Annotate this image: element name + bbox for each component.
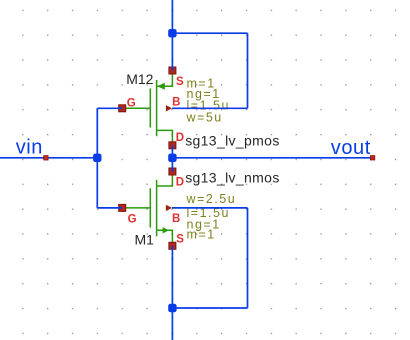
- svg-text:B: B: [172, 213, 180, 225]
- wire vss vertical: [171, 246, 173, 340]
- nmos M1 pin S: [169, 242, 176, 249]
- wire vin: [0, 157, 97, 159]
- nmos M1 pin G: [119, 204, 126, 211]
- wire nmos bulk: [172, 207, 248, 209]
- vin label marker: [44, 156, 48, 160]
- wire right rail lower: [247, 208, 249, 308]
- wire drain link: [171, 145, 173, 172]
- svg-text:S: S: [176, 76, 184, 88]
- svg-text:w=5u: w=5u: [186, 110, 223, 124]
- svg-text:sg13_lv_nmos: sg13_lv_nmos: [185, 169, 279, 185]
- junction top: [168, 29, 176, 37]
- nmos M1 drain leg: [157, 172, 172, 187]
- pmos M12 drain leg: [157, 130, 172, 145]
- pmos M12 gate lead: [122, 107, 150, 109]
- wire bottom horizontal: [172, 307, 247, 309]
- svg-text:B: B: [172, 96, 180, 108]
- svg-text:vout: vout: [331, 137, 371, 159]
- pmos M12 bulk arrow: [166, 105, 172, 111]
- pmos M12 gate bar: [149, 88, 151, 127]
- svg-text:w=2.5u: w=2.5u: [186, 192, 237, 206]
- nmos M1 bulk arrow: [166, 205, 172, 211]
- svg-text:G: G: [128, 213, 137, 225]
- nmos M1 gate lead: [122, 207, 150, 209]
- svg-text:m=1: m=1: [187, 228, 216, 242]
- svg-text:G: G: [127, 97, 136, 109]
- svg-text:M1: M1: [135, 232, 155, 248]
- nmos M1 source leg: [157, 230, 172, 243]
- wire vout: [172, 157, 373, 159]
- pmos M12 source arrow: [157, 83, 165, 90]
- nmos M1 source arrow: [163, 227, 169, 233]
- junction bottom: [168, 304, 176, 312]
- pmos M12 source leg: [157, 71, 172, 86]
- wire top horizontal: [172, 32, 247, 34]
- wire nmos gate stub: [97, 207, 122, 209]
- junction vin: [93, 154, 101, 162]
- pmos M12 pin G: [119, 105, 126, 112]
- wire pmos bulk: [172, 107, 248, 109]
- svg-text:D: D: [176, 177, 184, 189]
- vout label marker: [370, 156, 374, 160]
- wire pmos gate stub: [97, 107, 122, 109]
- svg-text:sg13_lv_pmos: sg13_lv_pmos: [185, 132, 279, 148]
- pmos M12 pin S: [169, 67, 176, 74]
- svg-text:D: D: [176, 132, 184, 144]
- pmos M12 channel bar: [156, 80, 158, 136]
- nmos M1 gate bar: [149, 188, 151, 227]
- wire right rail upper: [247, 33, 249, 108]
- nmos M1 channel bar: [156, 180, 158, 237]
- pmos M12 pin D: [169, 142, 176, 149]
- junction vout node: [168, 154, 176, 162]
- nmos M1 pin D: [169, 168, 176, 175]
- svg-text:vin: vin: [16, 137, 43, 159]
- wire vdd vertical: [171, 0, 173, 71]
- svg-text:M12: M12: [126, 71, 153, 87]
- wire gate rail: [96, 108, 98, 208]
- svg-text:S: S: [176, 233, 184, 245]
